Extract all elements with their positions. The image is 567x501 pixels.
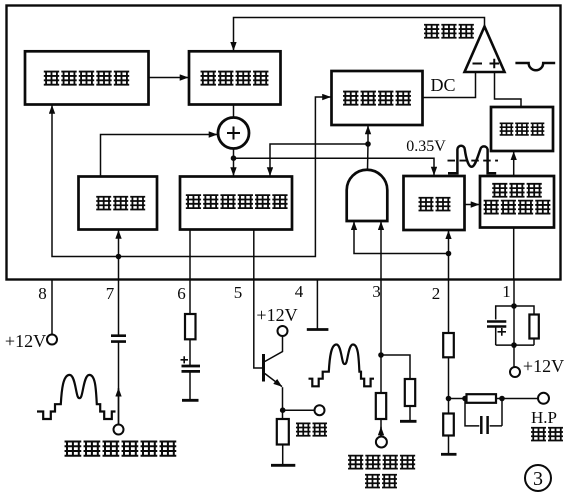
R4 lead to ground — [409, 406, 411, 421]
junction dot on pin2 riser — [446, 251, 452, 257]
+12V terminal above Q1 — [278, 326, 288, 336]
block: DC transfer control 直流传输控制 — [180, 177, 292, 230]
svg-text:3: 3 — [372, 282, 381, 301]
clamp pulse input terminal — [376, 437, 387, 448]
comparator U1 triangle — [465, 27, 505, 73]
wire: pin3 riser to AND gate right input — [380, 222, 382, 280]
bottom tie of pin1 network — [496, 344, 534, 346]
wire: summing output to blanking top — [234, 158, 435, 175]
bypass capacitor C3 below R6 — [465, 399, 502, 435]
clamp pulse waveform glyph — [309, 345, 375, 387]
0.35V dashed level line — [448, 160, 499, 162]
label 输入 below 钳位脉冲 — [365, 475, 397, 488]
+12V terminal at pin1 — [510, 367, 520, 377]
C4 plates — [487, 322, 506, 327]
wire: comparator output feedback to gain control top — [234, 18, 485, 51]
label 峰值保持 line2 — [484, 201, 551, 214]
label 消隐 — [419, 198, 451, 211]
block: black level detect 黑电平检测 — [25, 51, 149, 104]
label 钳位脉冲 — [348, 456, 415, 469]
wire: peak hold top to limiter bottom — [513, 152, 515, 176]
0.35V waveform glyph — [448, 146, 496, 173]
block: DC clamp 直流钳位 — [332, 71, 423, 125]
comparator plus input label — [490, 59, 500, 69]
wire: peak hold bottom to pin1 — [513, 228, 515, 280]
comparator minus input label — [473, 63, 483, 65]
electrolytic capacitor C2 at pin6 — [182, 366, 201, 371]
wire: amplifier output to summing node — [101, 135, 218, 177]
electrolytic capacitor C4 branch — [496, 306, 514, 345]
svg-text:3: 3 — [533, 468, 543, 490]
label 输入 below H.P — [531, 428, 563, 441]
ground at pin4 — [307, 328, 329, 331]
ground below R7 — [441, 453, 457, 456]
svg-text:1: 1 — [502, 282, 511, 301]
AND gate — [347, 170, 388, 221]
pin7 lead upper — [118, 280, 120, 336]
junction dot on AND output — [365, 141, 371, 147]
summing node plus sign — [227, 127, 240, 140]
wire: pin7 branch to black level detect — [52, 105, 119, 256]
pin2 lead — [448, 280, 450, 334]
block: blanking 消隐 — [404, 176, 465, 230]
resistor R1 at pin6 — [185, 314, 196, 339]
pin8 +12V terminal — [47, 335, 57, 345]
pin8 lead — [51, 280, 53, 335]
Q1 collector — [265, 337, 283, 362]
junction dot right of series resistor — [499, 396, 505, 402]
label 放大器 — [96, 197, 145, 210]
resistor R5 at pin2 — [443, 333, 454, 357]
wire: blanking output to peak hold — [465, 204, 480, 206]
svg-text:+12V: +12V — [523, 356, 564, 376]
junction dot below summing node — [231, 155, 237, 161]
pin4 lead — [316, 280, 318, 329]
label 直流传输控制 — [186, 195, 288, 208]
resistor R3 at pin3 — [376, 393, 386, 419]
wire: DC clamp output to comparator minus — [423, 72, 476, 98]
wire: black level detect to gain control — [149, 77, 189, 79]
svg-text:4: 4 — [295, 282, 304, 301]
Q1 emitter lead down — [282, 387, 284, 419]
label 亮度信号输入 — [65, 441, 177, 455]
transistor Q1 base bar — [262, 354, 265, 382]
svg-text:+12V: +12V — [5, 331, 46, 351]
block: gain control 增益控制 — [189, 51, 281, 104]
coupling capacitor C1 at pin7 — [111, 336, 126, 342]
label 输出 — [296, 423, 327, 435]
output terminal — [315, 405, 325, 415]
pin1 lead — [513, 280, 515, 368]
label 黑电平检测 — [44, 72, 129, 85]
H.P input terminal — [538, 393, 549, 404]
comparator output pulse glyph — [515, 63, 555, 70]
C4 plus sign — [498, 328, 507, 336]
svg-text:6: 6 — [177, 284, 186, 303]
svg-text:8: 8 — [38, 284, 47, 303]
wire: pin7 branch to DC clamp left — [119, 97, 331, 257]
pin3 lead — [380, 280, 382, 394]
wire: AND output branch to DC transfer control top — [270, 144, 368, 176]
IC outline box — [7, 6, 561, 280]
wire: H.P row left segment — [449, 398, 467, 400]
wire: comparator plus to limiter top — [495, 72, 522, 107]
ground at pin6 — [182, 399, 199, 402]
junction dot pin2/H.P row — [446, 396, 452, 402]
label 直流钳位 — [343, 92, 411, 105]
pin5 lead — [254, 280, 262, 369]
svg-text:0.35V: 0.35V — [406, 138, 446, 155]
svg-text:5: 5 — [234, 283, 243, 302]
wire: DC transfer control to pin5 — [253, 230, 255, 280]
Q1 emitter with arrow — [265, 374, 282, 387]
label 限幅器 — [500, 123, 545, 135]
svg-text:H.P: H.P — [531, 408, 557, 427]
junction dot left of series resistor — [462, 396, 468, 402]
wire: pin3 branch right — [381, 355, 410, 379]
pin6 lead lower — [189, 371, 191, 399]
wire: summing node output down — [233, 149, 235, 176]
label 比较器 — [424, 25, 474, 38]
junction dot at emitter node — [280, 407, 286, 413]
luminance input terminal — [114, 425, 124, 435]
wire: H.P row right segment — [496, 398, 538, 400]
wire: pin7 riser to amplifier — [118, 230, 120, 279]
svg-text:7: 7 — [106, 284, 115, 303]
summing node circle — [218, 118, 249, 149]
luminance video waveform glyph — [37, 375, 116, 419]
resistor R2 below Q1 — [277, 419, 289, 445]
pin2 lead middle — [448, 357, 450, 413]
pin6 lead upper — [189, 280, 191, 315]
svg-text:2: 2 — [432, 284, 441, 303]
series resistor R6 (horizontal) — [467, 394, 497, 403]
pin6 lead middle — [189, 339, 191, 365]
ground below R2 — [271, 464, 295, 467]
wire: pin2 branch to AND gate left input — [354, 222, 449, 254]
C2 plus sign — [181, 356, 189, 363]
ground below R4 — [400, 420, 417, 423]
block: amplifier 放大器 — [79, 177, 158, 230]
R2 lead to ground — [282, 445, 284, 465]
resistor R7 below pin2 — [443, 414, 454, 436]
resistor R4 right branch — [405, 379, 415, 406]
wire: AND gate output to DC clamp bottom — [367, 126, 370, 170]
R7 lead to ground — [448, 436, 450, 454]
block: limiter 限幅器 — [491, 107, 553, 151]
svg-text:+12V: +12V — [256, 305, 297, 325]
resistor R8 branch — [514, 306, 534, 345]
wire: gain control bottom to summing node — [233, 105, 235, 118]
wire: emitter node to output terminal — [283, 409, 315, 411]
wire: pin2 riser to blanking bottom — [448, 231, 450, 280]
label 黑电平 line1 — [492, 184, 542, 197]
junction dot on pin7 riser — [116, 254, 122, 260]
pin7 lead lower with arrow — [118, 388, 120, 425]
junction dot at pin3 — [378, 352, 384, 358]
junction dot pin1 bottom — [511, 342, 517, 348]
block: black level peak hold 黑电平峰值保持 — [480, 176, 554, 228]
pin3 lower lead with arrow — [380, 427, 382, 437]
circled figure number 3 — [525, 465, 551, 491]
label 增益控制 — [201, 72, 269, 85]
svg-text:DC: DC — [430, 75, 455, 95]
wire: DC transfer control to pin6 — [189, 230, 191, 280]
junction dot pin1 top — [511, 303, 517, 309]
